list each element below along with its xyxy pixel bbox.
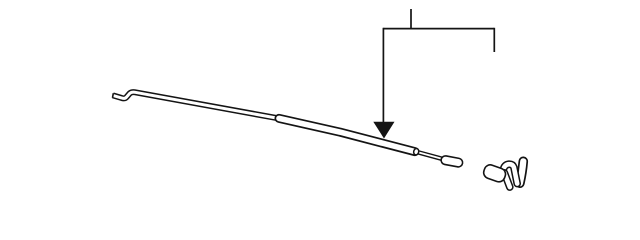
clip front leg outline [504, 173, 509, 187]
clip front leg core [504, 173, 509, 187]
clip barrel [482, 163, 507, 183]
callout tick [410, 9, 412, 29]
callout bracket right drop [493, 28, 495, 52]
rod left hook outline [113, 92, 277, 118]
tip rod outline [418, 152, 445, 159]
collar ring [413, 148, 419, 155]
callout bracket horizontal [383, 28, 494, 30]
clip arch and diagonal outline [503, 164, 517, 183]
clip right strip core [520, 161, 523, 183]
arrowhead [374, 122, 393, 137]
sleeve core [279, 118, 415, 151]
clip arch and diagonal core [503, 164, 517, 183]
rod left hook core [113, 92, 277, 118]
tip capsule outline [445, 160, 458, 162]
sleeve outline [279, 118, 415, 151]
rod left cap [112, 93, 115, 98]
tip rod core [418, 152, 445, 159]
callout leader vertical [382, 28, 384, 123]
clip right strip outline [520, 161, 523, 183]
tip capsule core [445, 160, 458, 162]
